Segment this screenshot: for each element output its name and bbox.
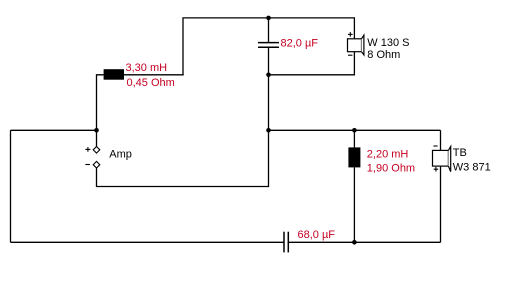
wire TB riser from middle bus [440, 130, 442, 150]
node junction of W130S return on 82uF riser [266, 73, 271, 78]
wire 82uF top lead from top junction [268, 18, 270, 42]
speaker TB cone [448, 147, 450, 172]
wire L1 right lead [124, 74, 184, 76]
node A amp plus junction [94, 128, 99, 133]
wire middle bus node B to TB riser [269, 129, 441, 131]
wire TB bottom lead to bottom bus [440, 166, 442, 242]
wire bottom bus right of 68uF [289, 241, 441, 243]
node L2 bottom junction [352, 240, 357, 245]
capacitor C1 82uF plates [258, 43, 279, 48]
svg-text:3,30 mH: 3,30 mH [126, 62, 168, 74]
wire L1 left lead down to node A [97, 75, 104, 131]
speaker TB box [433, 150, 449, 166]
svg-text:W3 871: W3 871 [453, 162, 491, 174]
wire L2 bottom lead to bottom bus [353, 167, 355, 242]
wire bottom bus left of 68uF [11, 241, 284, 243]
wire 82uF bottom lead through node at y74.8 to node B [268, 48, 270, 131]
svg-text:2,20 mH: 2,20 mH [367, 149, 409, 161]
node L2 top junction [352, 128, 357, 133]
wire node A to Amp plus terminal [96, 130, 98, 146]
svg-text:W 130 S: W 130 S [367, 37, 409, 49]
node top junction at 82uF tap [266, 16, 271, 21]
amp minus terminal diamond [93, 161, 100, 168]
capacitor C2 68uF plates [284, 232, 288, 253]
wire Amp minus lead down and right up to node B [97, 130, 269, 186]
svg-text:1,90 Ohm: 1,90 Ohm [367, 163, 415, 175]
amp minus mark [85, 164, 90, 166]
wire left vertical return [10, 130, 12, 242]
inductor L1 body [104, 69, 124, 80]
speaker TB minus mark [433, 145, 437, 147]
speaker W130S minus mark [348, 54, 352, 56]
svg-text:Amp: Amp [109, 149, 132, 161]
speaker W130S box [348, 39, 362, 52]
wire top bus with risers [183, 18, 354, 75]
amp plus mark [85, 147, 90, 152]
svg-text:68,0 µF: 68,0 µF [298, 229, 336, 241]
speaker W130S cone [362, 35, 364, 55]
amp plus terminal diamond [93, 147, 100, 154]
speaker TB plus mark [434, 167, 439, 172]
speaker W130S plus mark [348, 32, 353, 37]
wire left bus into node A [11, 129, 97, 131]
node B amp minus junction [266, 128, 271, 133]
svg-text:TB: TB [453, 147, 467, 159]
svg-text:8 Ohm: 8 Ohm [367, 49, 400, 61]
inductor L2 body [348, 147, 360, 167]
wire speaker W130S bottom lead to junction on 82uF riser [269, 52, 355, 75]
wire middle bus to L2 top [353, 130, 355, 147]
svg-text:82,0 µF: 82,0 µF [281, 38, 319, 50]
svg-text:0,45 Ohm: 0,45 Ohm [127, 77, 175, 89]
